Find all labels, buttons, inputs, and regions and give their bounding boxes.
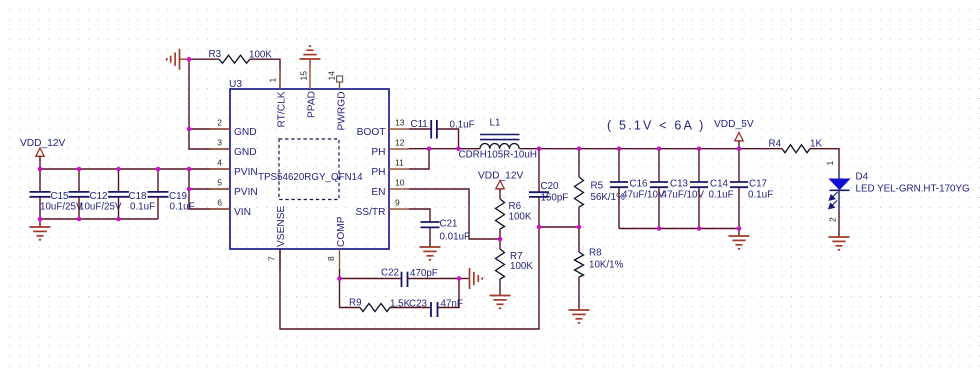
ground (inverted, pin 15 PPAD) [300,46,321,69]
svg-text:10uF/25V: 10uF/25V [79,202,122,213]
LED D4 [825,161,970,223]
svg-text:2: 2 [217,117,222,127]
svg-text:PH: PH [371,167,385,178]
svg-text:C13: C13 [670,178,689,189]
wire: output bus VDD_5V [520,148,782,150]
U3 pin stubs [210,69,409,269]
svg-text:0.1uF: 0.1uF [170,202,195,213]
wire: feedback node to VSENSE [280,227,579,329]
svg-text:( 5.1V < 6A ): ( 5.1V < 6A ) [607,119,705,133]
svg-text:11: 11 [395,157,404,167]
capacitor C17 [730,149,773,229]
wire: COMP network [340,269,469,308]
svg-text:RT/CLK: RT/CLK [277,91,288,127]
capacitor C22 [381,268,438,288]
svg-text:10K/1%: 10K/1% [589,260,624,271]
capacitor C21 [421,219,471,243]
ground (LED) [829,237,850,250]
wire: BOOT to C11 [409,129,459,149]
svg-text:R4: R4 [769,139,782,150]
svg-text:12: 12 [395,137,405,147]
capacitor C20 [529,149,568,227]
svg-text:14: 14 [327,71,337,81]
svg-text:0.1uF: 0.1uF [130,202,155,213]
svg-text:C17: C17 [749,178,767,189]
svg-text:R3: R3 [209,49,222,60]
resistor R6 [496,199,532,239]
ground (output caps) [729,236,750,249]
svg-text:9: 9 [395,197,400,207]
power VDD_5V [714,119,754,149]
svg-text:4: 4 [217,157,222,167]
svg-text:PWRGD: PWRGD [337,91,348,130]
svg-text:PVIN: PVIN [234,187,258,198]
svg-text:R9: R9 [349,298,362,309]
svg-text:GND: GND [234,127,257,138]
IC U3 TPS54620RGY_QFN14 body [229,79,389,249]
ground (C21) [420,247,441,260]
ground (R7) [490,296,511,309]
capacitor C18 [108,169,155,219]
capacitor C12 [69,169,122,219]
wire: EN divider [409,189,500,239]
svg-text:6: 6 [217,197,222,207]
svg-text:100K: 100K [509,212,532,223]
capacitor C16 [610,149,665,229]
svg-text:10uF/25V: 10uF/25V [40,202,83,213]
U3 pin names [234,91,386,247]
svg-text:10: 10 [395,177,405,187]
svg-text:R5: R5 [591,181,604,192]
svg-text:D4: D4 [856,172,869,183]
svg-text:SS/TR: SS/TR [355,207,385,218]
resistor R9 [349,298,411,312]
svg-text:VDD_5V: VDD_5V [714,119,754,130]
node junctions input bus [38,167,192,222]
node junctions COMP [337,276,461,281]
power VDD_12V (enable divider) [478,170,524,199]
svg-text:C21: C21 [440,219,458,230]
svg-text:47uF/10V: 47uF/10V [662,190,705,201]
no-connect square on pin 14 PWRGD [337,76,343,82]
svg-text:1: 1 [268,78,278,83]
wire: R4 to LED [810,149,839,237]
svg-text:VDD_12V: VDD_12V [478,170,524,181]
svg-text:VIN: VIN [234,207,251,218]
svg-text:LED YEL-GRN.HT-170YG: LED YEL-GRN.HT-170YG [856,184,970,195]
ground (sideways, top-left) [167,49,189,70]
svg-text:PPAD: PPAD [307,91,318,118]
node junction at GND rail [187,57,192,62]
capacitor C19 [148,169,195,219]
svg-text:7: 7 [267,256,277,261]
svg-text:0.1uF: 0.1uF [748,190,773,201]
svg-text:C20: C20 [541,181,560,192]
svg-text:COMP: COMP [336,216,347,247]
svg-text:VDD_12V: VDD_12V [20,138,66,149]
wire: output caps ground bus [619,229,739,237]
wire: SS/TR to C21 [409,209,430,247]
svg-text:BOOT: BOOT [357,127,386,138]
svg-text:PVIN: PVIN [234,167,258,178]
ground (input caps) [30,227,51,240]
capacitor C23 [409,299,463,318]
svg-text:8: 8 [326,256,336,261]
svg-text:150pF: 150pF [541,193,569,204]
svg-text:C19: C19 [169,191,187,202]
svg-text:EN: EN [371,187,385,198]
svg-text:R6: R6 [509,201,522,212]
svg-text:15: 15 [299,71,309,81]
resistor R3 [209,49,273,63]
capacitor C14 [690,149,734,229]
svg-text:C15: C15 [51,191,70,202]
svg-text:1: 1 [825,161,835,166]
resistor R5 [575,149,626,227]
svg-text:C12: C12 [90,191,108,202]
resistor R7 [496,239,534,296]
wire: PH bus to L1 [409,149,480,169]
svg-text:C11: C11 [411,119,428,130]
svg-text:CDRH105R-10uH: CDRH105R-10uH [459,150,537,161]
svg-text:C22: C22 [381,268,399,279]
svg-text:C16: C16 [630,178,649,189]
svg-text:47nF: 47nF [441,299,463,310]
wire: GND rail from top-left earth to pins 2,3 [189,59,280,149]
svg-text:GND: GND [234,147,257,158]
svg-text:100K: 100K [249,50,272,61]
node junction EN/R6/R7 [498,237,503,242]
capacitor C15 [30,169,83,219]
svg-text:470pF: 470pF [410,268,438,279]
svg-text:0.01uF: 0.01uF [440,232,471,243]
svg-text:0.1uF: 0.1uF [450,120,475,131]
node junctions output bus [617,146,742,230]
svg-text:5: 5 [217,177,222,187]
power VDD_12V (input) [20,138,66,169]
svg-text:2: 2 [828,217,838,222]
svg-text:56K/1%: 56K/1% [591,192,626,203]
svg-text:0.1uF: 0.1uF [709,190,734,201]
svg-text:R8: R8 [589,248,602,259]
svg-text:C23: C23 [409,299,428,310]
capacitor C13 [650,149,704,229]
svg-text:PH: PH [371,147,385,158]
svg-text:U3: U3 [229,79,242,90]
svg-text:L1: L1 [490,118,501,129]
node junctions feedback [537,146,582,229]
resistor R4 [769,139,823,153]
ground (R8) [569,310,590,323]
svg-text:VSENSE: VSENSE [276,205,287,247]
svg-text:100K: 100K [510,261,533,272]
svg-text:C14: C14 [710,178,729,189]
node junctions PH/boot [427,146,461,151]
svg-text:1.5K: 1.5K [390,299,411,310]
resistor R8 [575,227,624,310]
inductor L1 [459,118,537,161]
wire: input bus to PVIN/VIN [40,169,230,227]
ground (sideways right, COMP) [470,268,483,289]
U3 pin numbers [217,71,404,261]
svg-text:C18: C18 [129,191,148,202]
capacitor C11 [411,119,475,139]
svg-text:1K: 1K [810,139,822,150]
svg-text:TPS54620RGY_QFN14: TPS54620RGY_QFN14 [258,172,363,183]
svg-text:3: 3 [217,137,222,147]
svg-text:13: 13 [395,117,405,127]
